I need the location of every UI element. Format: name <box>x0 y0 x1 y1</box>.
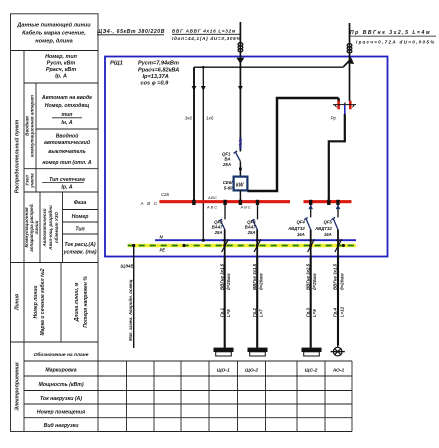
label QF4 <box>287 219 305 237</box>
svg-text:ЩО-2: ЩО-2 <box>245 367 258 373</box>
wire: drop from meter loop to terminal <box>337 98 340 102</box>
svg-text:QF5: QF5 <box>323 219 332 224</box>
svg-text:kW: kW <box>236 183 245 189</box>
svg-text:Марка и сечение кабел №2: Марка и сечение кабел №2 <box>39 268 46 335</box>
wire meter to bus <box>239 190 241 201</box>
plug arrow QF5 <box>336 205 341 210</box>
svg-text:А В С: А В С <box>206 204 217 209</box>
svg-text:25А: 25А <box>247 230 256 235</box>
N busbar <box>155 239 356 241</box>
svg-text:Длина линии, м: Длина линии, м <box>74 282 80 322</box>
svg-text:L=8: L=8 <box>226 309 231 317</box>
incoming feeder header text <box>97 29 165 35</box>
svg-text:облемат УЗО: облемат УЗО <box>53 211 59 243</box>
wire: internal distribution header <box>194 66 343 68</box>
rotated section labels <box>14 95 90 411</box>
svg-text:1х6: 1х6 <box>206 116 214 121</box>
svg-text:Обозначение на плане: Обозначение на плане <box>34 351 89 358</box>
wire feeder group 1 drop <box>224 257 226 348</box>
label QF3 <box>245 219 256 235</box>
svg-text:ВВГнг 3х1,5: ВВГнг 3х1,5 <box>333 263 338 290</box>
bottom receiver table grid <box>24 361 352 432</box>
wire: PE riser down <box>133 246 135 349</box>
svg-text:РЩ1: РЩ1 <box>110 61 123 67</box>
svg-text:ЩО-1: ЩО-1 <box>217 367 230 373</box>
load panel ЩС-2 <box>302 348 322 356</box>
svg-text:д=20мм: д=20мм <box>339 273 344 290</box>
load luminaire АО-1 <box>331 346 345 356</box>
svg-text:Iр, А: Iр, А <box>55 74 67 80</box>
svg-text:Пр ВВГнг 3х2,5 L=4м: Пр ВВГнг 3х2,5 L=4м <box>350 30 431 36</box>
svg-text:Фаза: Фаза <box>74 200 87 206</box>
svg-text:ЩЭ4Б: ЩЭ4Б <box>121 263 134 268</box>
svg-text:уставк. (та): уставк. (та) <box>63 250 97 256</box>
svg-text:25А: 25А <box>214 230 223 235</box>
arrowhead on neutral drop <box>201 86 206 91</box>
meter Wh <box>234 177 248 191</box>
svg-text:автоматический: автоматический <box>44 139 91 146</box>
svg-text:Руст=7,94кВт: Руст=7,94кВт <box>138 61 179 67</box>
svg-text:Iр=13,37А: Iр=13,37А <box>143 74 169 80</box>
svg-text:Авкл-ющ, разрядни: Авкл-ющ, разрядни <box>48 205 53 251</box>
meter cell <box>49 177 85 191</box>
PEN pick marks group 2 <box>254 239 261 252</box>
svg-text:АО-1: АО-1 <box>332 367 345 373</box>
node: feed tap junctions <box>202 66 205 69</box>
PEN pick marks group 1 <box>222 239 229 252</box>
outgoing riser header text <box>350 30 431 36</box>
svg-text:ВА47: ВА47 <box>245 225 256 230</box>
svg-text:L=7: L=7 <box>259 309 264 317</box>
terminal outgoing blue contact <box>344 105 346 115</box>
wire: jog up to riser <box>343 61 350 68</box>
svg-text:СЕ6/: СЕ6/ <box>223 180 234 185</box>
svg-text:QF1: QF1 <box>222 151 231 156</box>
breaker QF2 group 1 <box>219 203 226 230</box>
node PE riser tap <box>132 244 135 247</box>
svg-text:АВДТ32: АВДТ32 <box>287 226 305 231</box>
svg-text:Потеря напряжен %: Потеря напряжен % <box>83 276 89 328</box>
cable transition squiggle on riser <box>347 44 352 53</box>
svg-text:Номер, тип: Номер, тип <box>45 54 78 60</box>
svg-text:А В С: А В С <box>240 204 251 209</box>
svg-text:РЕ: РЕ <box>160 248 166 253</box>
panel data text <box>138 61 179 87</box>
wire: incoming supply line <box>239 22 241 67</box>
svg-text:ВА: ВА <box>224 157 230 162</box>
svg-text:Мощность (кВт): Мощность (кВт) <box>38 382 83 388</box>
label meter <box>223 180 234 191</box>
PE busbar <box>128 244 356 247</box>
wire: outgoing riser up <box>349 23 351 102</box>
panel parameters cell <box>45 54 78 80</box>
svg-text:ВВГнг 3х1,5: ВВГнг 3х1,5 <box>252 263 257 290</box>
svg-text:учета: учета <box>30 173 35 189</box>
svg-text:Автомат на вводе: Автомат на вводе <box>41 95 92 101</box>
svg-text:Гр.2: Гр.2 <box>252 308 257 317</box>
svg-text:номер тип (отл. А: номер тип (отл. А <box>42 160 92 166</box>
svg-text:д=20мм: д=20мм <box>226 273 231 290</box>
terminal contact red left <box>337 101 340 110</box>
phase rows <box>63 200 97 256</box>
wire feeder group 1 in panel <box>224 230 226 257</box>
svg-text:коммутационная аппарат: коммутационная аппарат <box>30 95 35 157</box>
svg-text:Номер помещения: Номер помещения <box>37 409 85 415</box>
svg-text:Iрасч=0,72А dU=0,005%: Iрасч=0,72А dU=0,005% <box>356 40 436 45</box>
svg-text:Распределительный пункт: Распределительный пункт <box>14 119 21 193</box>
PEN pick marks group 3 <box>308 239 315 252</box>
wire feeder group 2 drop <box>256 257 258 348</box>
busbar A B C right segment <box>304 200 352 203</box>
wire feeder group 2 in panel <box>256 230 258 257</box>
receiver table values <box>217 367 345 373</box>
svg-text:Ток расц.(А): Ток расц.(А) <box>64 242 95 248</box>
svg-text:тип: тип <box>62 112 74 118</box>
wire feeder group 3 in panel <box>310 230 312 257</box>
svg-text:Номер линии: Номер линии <box>33 286 39 319</box>
svg-text:5-60: 5-60 <box>224 186 233 191</box>
svg-text:С2Б: С2Б <box>161 192 169 197</box>
node PE stray junction <box>182 244 185 247</box>
svg-text:3х6: 3х6 <box>185 116 193 121</box>
arrowhead up on riser <box>348 57 355 64</box>
svg-text:QF3: QF3 <box>247 219 256 224</box>
svg-text:Автоматическо: Автоматическо <box>42 208 47 247</box>
svg-text:Ррасч=6,82кВА: Ррасч=6,82кВА <box>138 68 179 74</box>
svg-text:номер, длина: номер, длина <box>35 39 72 45</box>
load panel ЩО-1 <box>214 348 234 356</box>
wire: neutral drop to N bus <box>202 67 204 240</box>
svg-text:Маг. зазем. Аварийн. освещ: Маг. зазем. Аварийн. освещ <box>128 280 133 341</box>
svg-text:Iдоп=44,1(А) dU=0,305%: Iдоп=44,1(А) dU=0,305% <box>172 36 241 41</box>
svg-text:д=20мм: д=20мм <box>312 273 317 290</box>
plug arrow QF4 <box>308 205 313 210</box>
svg-text:Тип: Тип <box>75 227 85 233</box>
svg-text:Ток нагрузки (А): Ток нагрузки (А) <box>40 396 82 402</box>
arrowhead on main drop <box>238 86 243 91</box>
svg-text:cos φ =0,9: cos φ =0,9 <box>141 81 170 87</box>
svg-text:Номер: Номер <box>72 214 89 220</box>
svg-text:ВА47: ВА47 <box>212 225 223 230</box>
wire feeder group 3 drop <box>310 257 312 348</box>
svg-text:L=9: L=9 <box>312 309 317 317</box>
svg-text:QF2: QF2 <box>214 219 223 224</box>
svg-text:Маркировка: Маркировка <box>45 368 76 374</box>
svg-text:ЩЭ4-, 65кВт 380/220В: ЩЭ4-, 65кВт 380/220В <box>97 29 165 35</box>
svg-text:25А: 25А <box>222 162 231 167</box>
wire: phase drop to bus <box>193 67 195 201</box>
breaker QF5 group 4 RCBO <box>332 203 339 230</box>
svg-text:L=12: L=12 <box>339 306 344 317</box>
terminal strip bar <box>333 102 356 107</box>
svg-text:ВВГнг 3х1,5: ВВГнг 3х1,5 <box>219 263 224 290</box>
svg-text:Рр: Рр <box>331 116 337 121</box>
node N drop junction <box>202 239 205 242</box>
svg-text:Электроприемник: Электроприемник <box>15 362 21 411</box>
svg-text:А В С: А В С <box>140 201 159 206</box>
label QF1 <box>222 151 231 167</box>
label QF5 <box>314 219 332 237</box>
svg-text:АВС: АВС <box>207 195 217 200</box>
receiver table row labels <box>34 351 89 429</box>
wire: meter loop to right section (thick) <box>247 98 338 191</box>
arrowhead into panel on incoming line <box>236 58 244 64</box>
breaker QF4 group 3 RCBO <box>304 203 311 230</box>
svg-text:Вид нагрузки: Вид нагрузки <box>44 423 80 429</box>
svg-text:Гр.4: Гр.4 <box>333 308 338 317</box>
left data table grid <box>11 14 99 432</box>
svg-text:ЩС-2: ЩС-2 <box>305 367 318 373</box>
label QF2 <box>212 219 223 235</box>
svg-text:ВВГнг 3х2,5: ВВГнг 3х2,5 <box>305 263 310 290</box>
wire feeder group 4 in panel <box>337 230 339 257</box>
svg-text:Данные питающей линии: Данные питающей линии <box>16 22 91 29</box>
svg-text:выключатель: выключатель <box>48 149 85 155</box>
svg-text:Ррасч, кВт: Ррасч, кВт <box>46 67 76 73</box>
input breaker cell <box>41 95 92 126</box>
panel enclosure РЩ1 <box>105 57 388 257</box>
wire QF1 to meter <box>239 162 241 177</box>
svg-text:16А: 16А <box>297 232 305 237</box>
svg-text:ВВГ АВВГ 4х16 L=32м: ВВГ АВВГ 4х16 L=32м <box>172 29 236 34</box>
svg-text:Руст, кВт: Руст, кВт <box>47 61 76 67</box>
wire feeder group 4 drop <box>337 257 339 346</box>
svg-text:16А: 16А <box>324 232 332 237</box>
svg-text:линии: линии <box>34 220 39 235</box>
cable transition squiggle on incoming line <box>238 43 243 52</box>
input automatic switch cell <box>42 133 92 167</box>
left table header text <box>16 22 91 45</box>
svg-text:Линия: Линия <box>15 294 21 311</box>
svg-text:Iн, А: Iн, А <box>61 120 72 126</box>
svg-text:Номер, отходящ: Номер, отходящ <box>45 103 90 109</box>
svg-text:Гр.1: Гр.1 <box>219 308 224 317</box>
svg-text:Гр.3: Гр.3 <box>305 308 310 317</box>
terminal contact red right (riser) <box>349 101 352 110</box>
node: bus taps <box>192 200 339 205</box>
PEN pick marks group 4 <box>335 239 342 252</box>
arrowhead on phase drop <box>192 86 197 91</box>
busbar A B C left segment <box>159 200 290 203</box>
svg-text:АВДТ32: АВДТ32 <box>314 226 332 231</box>
svg-text:Кабель марка сечение,: Кабель марка сечение, <box>22 30 86 37</box>
breaker QF3 group 2 <box>251 203 258 230</box>
svg-text:QF4: QF4 <box>296 219 305 224</box>
wire: terminal to right bus segment <box>329 114 345 201</box>
svg-text:Вводной: Вводной <box>56 133 79 140</box>
svg-text:Iр, А: Iр, А <box>61 185 72 191</box>
svg-text:д=20мм: д=20мм <box>259 273 264 290</box>
load panel ЩО-2 <box>248 348 268 356</box>
breaker QF1 on main feed <box>234 67 242 161</box>
